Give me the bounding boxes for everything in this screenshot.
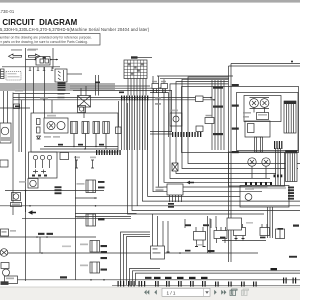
solenoid SV1 bbox=[217, 227, 226, 231]
node label m3 bbox=[19, 181, 26, 183]
arrow to cab harness bbox=[9, 54, 22, 59]
node label bus1 bbox=[232, 84, 239, 86]
wire label aux2 bbox=[95, 82, 100, 84]
wire drop strip2 bbox=[123, 101, 125, 151]
wire main vertical bus A bbox=[25, 48, 27, 281]
switch SW2 bbox=[1, 229, 9, 236]
wire acc trunk b bbox=[13, 99, 214, 101]
wire west run a bbox=[75, 213, 137, 215]
wire ign feed b bbox=[44, 67, 46, 118]
wire main bus P top b bbox=[229, 65, 301, 67]
next page button bbox=[214, 290, 217, 295]
node label d5 bbox=[152, 81, 157, 83]
connector CN-12 pin strip bbox=[172, 132, 201, 137]
wire riser k1c bbox=[95, 75, 97, 96]
wire k1 drop bbox=[83, 107, 85, 118]
inline connector J2 bbox=[14, 104, 20, 109]
wire long run mid bbox=[0, 205, 137, 207]
wire k5 drop bbox=[105, 134, 107, 150]
wire triple drop c bbox=[272, 207, 274, 238]
wire label k12a bbox=[101, 245, 108, 247]
wire riser sw top bbox=[80, 112, 82, 115]
switch SW3 bbox=[60, 153, 69, 160]
junction lr2 bbox=[95, 205, 97, 207]
switch SW4 bbox=[0, 160, 8, 167]
wire label k10w bbox=[98, 219, 105, 221]
wire label aux4 bbox=[162, 84, 167, 86]
junction bbox=[94, 197, 96, 199]
wire fan k9 bbox=[137, 101, 300, 206]
connector CN-20 bbox=[284, 101, 296, 133]
wire fan k4 bbox=[164, 88, 270, 182]
node label u5 bbox=[293, 225, 299, 227]
wire trunk left vertical bbox=[75, 156, 77, 280]
resistor R3 bbox=[276, 229, 285, 239]
connector pin row U2 bbox=[245, 182, 272, 185]
solenoid SV2 bbox=[236, 224, 243, 228]
wire label k9w2 bbox=[98, 187, 105, 189]
wire label k12b bbox=[101, 251, 108, 253]
terminal stub t4 bbox=[51, 67, 53, 71]
wire U-route 6 bbox=[153, 76, 262, 192]
wire bus L2 bbox=[0, 85, 115, 87]
junction bbox=[103, 279, 105, 281]
wire elbow 1 bbox=[121, 232, 151, 285]
wire label c1 bbox=[151, 248, 157, 250]
diode module D5 bbox=[152, 84, 159, 89]
wire riser c1 bbox=[152, 214, 154, 252]
wire alt risers bbox=[4, 91, 8, 123]
wire bus turn down b bbox=[21, 100, 23, 152]
inner module box bbox=[245, 121, 270, 137]
svg-text:LC-5,330H-5,330LCH-5,370-5,370: LC-5,330H-5,330LCH-5,370-5,370HD-5(Machi… bbox=[0, 27, 150, 32]
wire bottom run 3 bbox=[18, 279, 301, 281]
wire label mid2 bbox=[203, 224, 209, 226]
wire drop strip11 bbox=[147, 101, 149, 151]
solenoid relay K11 bbox=[90, 241, 100, 253]
node label GND bbox=[15, 90, 23, 92]
node label riser3 bbox=[213, 133, 223, 135]
wire battery link right bbox=[50, 59, 58, 61]
arrow harness right bbox=[28, 210, 36, 215]
connector pins CN-21 bbox=[274, 141, 282, 149]
relay K4 bbox=[93, 122, 100, 134]
wire drop strip3 bbox=[126, 101, 128, 151]
svg-text:rder parts on the drawing, be: rder parts on the drawing, be sure to co… bbox=[0, 40, 88, 44]
wire riser k1b bbox=[85, 86, 87, 96]
wire label b2 bbox=[47, 233, 54, 235]
wire fuse drop 5 bbox=[139, 79, 141, 96]
connector CN-11 pin strip bbox=[96, 150, 121, 155]
wire panel riser 5 bbox=[223, 80, 225, 150]
wire sw feed bbox=[51, 100, 53, 113]
terminal stub t1 bbox=[29, 67, 31, 71]
junction lr1 bbox=[29, 205, 31, 207]
node label sw bbox=[47, 115, 56, 117]
wire label lrl2 bbox=[55, 189, 62, 191]
wire panel riser 4 bbox=[220, 80, 222, 150]
wire riser f2 bbox=[118, 101, 120, 127]
control box U4 bbox=[5, 276, 18, 284]
node label k10 bbox=[77, 217, 85, 219]
wire label k9w bbox=[98, 181, 105, 183]
lower panel box U2 bbox=[229, 152, 285, 186]
fusible link FL1 bbox=[1, 69, 5, 79]
node label bus2 bbox=[232, 105, 239, 107]
wire bus L3 bbox=[0, 87, 115, 89]
wire fuse label leader bbox=[138, 57, 153, 59]
wire riser c4 bbox=[167, 221, 169, 252]
wire label W3 bbox=[58, 87, 66, 89]
wire cn12 link b bbox=[150, 133, 172, 135]
wire top loop b bbox=[160, 77, 229, 79]
wire fuse drop 3 bbox=[133, 79, 135, 96]
wire drop strip9 bbox=[141, 101, 143, 151]
svg-text:L CIRCUIT DIAGRAM: L CIRCUIT DIAGRAM bbox=[0, 18, 78, 27]
wire box bus 1 bbox=[44, 146, 118, 148]
relay K1 bbox=[78, 96, 91, 108]
wire bus L4 bbox=[0, 89, 115, 91]
page field 1/1 bbox=[162, 288, 210, 296]
node label riser2 bbox=[213, 106, 223, 108]
cluster gauge G2 bbox=[260, 99, 269, 108]
cluster gauge G1 bbox=[250, 99, 259, 108]
diode pack D3 bbox=[33, 170, 38, 174]
wire fuse drop 2 bbox=[130, 79, 132, 96]
alternator A1 bbox=[0, 123, 11, 143]
wire riser k1d bbox=[98, 75, 100, 96]
wire cn12 link a bbox=[150, 131, 172, 133]
wire fuse drop 4 bbox=[136, 79, 138, 96]
resistor R1 bbox=[37, 119, 41, 125]
wire elbow 3 bbox=[127, 237, 151, 285]
comm module U9 bbox=[196, 126, 203, 132]
wire fan k7 bbox=[148, 101, 240, 197]
sender label strip bbox=[252, 187, 286, 190]
wire label k12c bbox=[101, 257, 108, 259]
wire label W5 bbox=[58, 93, 65, 95]
node label battery bbox=[28, 49, 38, 51]
fuse FS2 bbox=[91, 160, 94, 168]
last page button bbox=[221, 290, 226, 295]
junction bbox=[43, 99, 45, 101]
wire fan k10 bbox=[132, 101, 300, 211]
ground terminal block bbox=[1, 281, 9, 285]
junction bat-r bbox=[50, 59, 52, 61]
wire U-route 3 bbox=[176, 82, 276, 174]
wire bus mid 3 bbox=[73, 89, 160, 91]
speaker SP1 bbox=[0, 249, 8, 257]
wire d5 pins bbox=[154, 89, 166, 93]
wire main bus P vertical b bbox=[230, 64, 232, 263]
module M1 bbox=[255, 137, 263, 152]
svg-text:1 / 1: 1 / 1 bbox=[167, 290, 176, 295]
wiper motor box M2 bbox=[29, 152, 58, 178]
monitor panel outer enclosure bbox=[182, 87, 299, 153]
wire riser c3 bbox=[162, 221, 164, 252]
pin cluster C bbox=[215, 282, 257, 287]
junction acc1 bbox=[210, 97, 212, 99]
wire label lrl3 bbox=[55, 192, 62, 194]
wire horn feed bbox=[5, 190, 104, 192]
wire bus L1 bbox=[0, 83, 115, 85]
box U5b bbox=[151, 246, 165, 259]
sensor box S1 bbox=[170, 113, 182, 126]
wire k3 drop bbox=[85, 134, 87, 150]
wire label W6 bbox=[58, 97, 65, 99]
fuse box label bbox=[131, 56, 138, 58]
node label harness-L bbox=[11, 49, 22, 51]
relay K5 bbox=[103, 122, 110, 134]
wire label u6d bbox=[168, 206, 174, 208]
controller module U6 bbox=[167, 184, 183, 195]
terminal stub t2 bbox=[37, 67, 39, 71]
wire battery link left bbox=[26, 59, 37, 61]
junction bbox=[159, 87, 161, 89]
wire label W2 bbox=[58, 85, 66, 87]
wire fuse drop 1 bbox=[127, 79, 129, 96]
wire drop strip1 bbox=[121, 101, 123, 151]
node label bus3 bbox=[232, 128, 239, 130]
wire U-route 4 bbox=[170, 84, 270, 179]
wire corner into CN-12 b bbox=[150, 93, 169, 137]
relay box K0 bbox=[6, 72, 21, 81]
wire drop strip8 bbox=[139, 101, 141, 151]
wire drop strip6 bbox=[134, 101, 136, 151]
node label bundle1 bbox=[155, 97, 161, 99]
lamp LP1 bbox=[3, 269, 10, 276]
junction acc2 bbox=[213, 99, 215, 101]
node label riser bbox=[213, 87, 223, 89]
wire fuse drop 7 bbox=[145, 79, 147, 96]
pin cluster B bbox=[154, 277, 208, 287]
node label gray1 bbox=[62, 246, 71, 248]
wire ign feed a bbox=[33, 67, 35, 113]
wire U-route 1 bbox=[188, 77, 300, 164]
node label gray3 bbox=[246, 222, 253, 224]
starter relay K6 bbox=[78, 106, 86, 113]
pump P1 bbox=[245, 194, 252, 201]
node label bus4 bbox=[232, 151, 239, 153]
svg-text:s number on the drawing are pr: s number on the drawing are provided onl… bbox=[0, 35, 92, 39]
wire drop strip7 bbox=[136, 101, 138, 151]
junction bbox=[153, 85, 155, 87]
wire mid drop pair bbox=[208, 216, 211, 253]
terminal stub t3 bbox=[43, 67, 45, 71]
gauge G4 bbox=[262, 158, 270, 166]
junction bat-l bbox=[34, 59, 36, 61]
gauge frame bbox=[250, 98, 270, 109]
wire g4 drop bbox=[265, 166, 267, 178]
resistor R2 bbox=[37, 127, 41, 133]
wire elbow 2 bbox=[124, 234, 151, 285]
wire ps riser bbox=[184, 219, 186, 228]
junction bbox=[36, 236, 38, 238]
node label k9 bbox=[77, 183, 85, 185]
lighter L1 bbox=[1, 263, 9, 269]
pressure switch PS1 bbox=[196, 227, 203, 232]
wire cn-a east bbox=[67, 73, 82, 75]
wire label stack right bbox=[288, 187, 294, 200]
fuse FS1 bbox=[75, 160, 78, 168]
first page button bbox=[144, 290, 149, 295]
comm module U7 bbox=[196, 96, 204, 102]
ignition switch box SW1 bbox=[31, 113, 118, 152]
wire west run b bbox=[75, 216, 131, 218]
clipboard icon (disabled) bbox=[242, 289, 249, 296]
node label k11 bbox=[80, 244, 88, 246]
washer motor M3 bbox=[28, 179, 38, 189]
wire g3 drop bbox=[251, 166, 253, 178]
note box bbox=[0, 34, 100, 46]
wire label aux1 bbox=[15, 106, 20, 108]
wire label ign3 bbox=[99, 144, 104, 146]
diode module D4 bbox=[172, 163, 178, 171]
wire label right-edge bbox=[289, 256, 297, 258]
wire feed k9 bbox=[75, 197, 97, 199]
prev page button bbox=[154, 290, 157, 295]
relay K8 bbox=[248, 124, 255, 133]
node label sw2 bbox=[10, 230, 16, 232]
relay K10 bbox=[86, 214, 96, 226]
wiper pins bbox=[32, 175, 35, 177]
key switch contacts bbox=[44, 118, 68, 133]
wire triple drop a bbox=[267, 207, 269, 238]
node label k12 bbox=[80, 265, 88, 267]
junction bbox=[90, 279, 92, 281]
node label s1 bbox=[170, 110, 178, 112]
wire label b1 bbox=[38, 233, 45, 235]
wire label W1 bbox=[58, 82, 66, 84]
pin cluster D bbox=[271, 268, 297, 284]
wire label run3b bbox=[145, 277, 152, 279]
wire triple drop b bbox=[269, 207, 271, 238]
wire label aux3 bbox=[119, 92, 124, 94]
arrow to engine harness bbox=[29, 54, 41, 59]
wire main bus P top a bbox=[231, 63, 300, 65]
wire bottom right run bbox=[222, 240, 266, 242]
wire label sv3w bbox=[260, 237, 266, 239]
wire U-route 5 bbox=[159, 76, 268, 187]
wire left riser bbox=[12, 93, 14, 216]
box U5 bbox=[227, 218, 242, 230]
battery B1 bbox=[36, 57, 50, 66]
fuse F2 bbox=[116, 127, 122, 134]
wire drop strip4 bbox=[128, 101, 130, 151]
wire ground run bbox=[13, 93, 70, 95]
node label gray2 bbox=[196, 244, 203, 246]
wire right riser group bbox=[275, 148, 277, 186]
monitor panel U1 bbox=[237, 93, 299, 151]
node label fs2 bbox=[90, 157, 96, 159]
wire main bus P vertical a bbox=[228, 66, 230, 262]
connector pin marks right bbox=[274, 175, 283, 178]
connector feet bbox=[151, 251, 170, 253]
fuse box F1 grid bbox=[124, 60, 147, 79]
wire label ign2 bbox=[78, 144, 83, 146]
wire fan k11 bbox=[128, 103, 265, 214]
wire cn-a riser bbox=[52, 48, 54, 69]
wire top loop a bbox=[157, 75, 233, 77]
node label u6a bbox=[156, 187, 164, 189]
wire label run2 bbox=[208, 250, 215, 252]
horn H1 bbox=[12, 193, 21, 201]
node label ACC bbox=[40, 97, 48, 99]
wire box bus 2 bbox=[40, 148, 118, 150]
wire label lrl bbox=[55, 186, 62, 188]
wire fan k8 bbox=[142, 101, 300, 202]
sensor group feet bbox=[235, 238, 245, 240]
junction bbox=[84, 148, 85, 149]
wire elbow 4 bbox=[130, 269, 161, 286]
junction top bbox=[291, 61, 293, 63]
node label panel1 bbox=[243, 112, 251, 114]
wire bottom run 2 bbox=[8, 252, 258, 254]
wire elbow 6 bbox=[136, 273, 301, 285]
relay K3 bbox=[82, 122, 89, 134]
wire battery feed bbox=[2, 66, 60, 68]
wire riser c2 bbox=[157, 216, 159, 252]
wire label c2 bbox=[158, 248, 164, 250]
wire label r3w bbox=[278, 228, 284, 230]
wire acc trunk a bbox=[13, 97, 211, 99]
wire bottom run 1 bbox=[0, 236, 96, 238]
wire riser k1a bbox=[80, 88, 82, 95]
wire elbow 5 bbox=[133, 271, 301, 285]
wire label mid1 bbox=[185, 224, 191, 226]
junction bbox=[179, 252, 181, 254]
wire drop sw2 bbox=[39, 237, 41, 253]
wire gauge links bbox=[254, 107, 265, 112]
connector CN-A bbox=[55, 69, 67, 82]
wire k2 drop bbox=[73, 134, 75, 147]
acc relay K7 bbox=[257, 113, 269, 120]
wire long run low bbox=[22, 217, 131, 219]
junction bat-r2 bbox=[56, 59, 58, 61]
node label u6b bbox=[156, 189, 164, 191]
lamp label bbox=[44, 136, 51, 138]
relay K2 bbox=[71, 122, 78, 134]
svg-text:3173E-01: 3173E-01 bbox=[0, 9, 15, 14]
wire panel riser 3 bbox=[217, 80, 219, 150]
wire k4 drop bbox=[95, 134, 97, 147]
node label panel2 bbox=[243, 116, 249, 118]
wire label u6c bbox=[168, 203, 174, 205]
connector CN-10 pin strip bbox=[121, 96, 148, 101]
horn label bbox=[11, 203, 22, 207]
relay K9 bbox=[86, 180, 96, 193]
node label bundle2 bbox=[155, 103, 161, 105]
node label fs1 bbox=[74, 157, 80, 159]
wire label ps1w bbox=[185, 250, 191, 252]
wire corner into CN-12 a bbox=[150, 90, 172, 132]
wire drop strip5 bbox=[131, 101, 133, 151]
wire label sv2w bbox=[220, 237, 226, 239]
wire horn drop bbox=[25, 191, 27, 213]
wire label k12d bbox=[101, 269, 108, 271]
gauge G3 bbox=[248, 158, 256, 166]
wire sv risers bbox=[210, 219, 212, 228]
node label harness-R bbox=[27, 49, 36, 51]
snapshot icon bbox=[230, 289, 237, 296]
connector CN-22 bbox=[286, 151, 298, 182]
arrow link bbox=[187, 181, 195, 185]
wire fuse drop 6 bbox=[142, 79, 144, 96]
junction bbox=[25, 190, 27, 192]
wire drop strip10 bbox=[144, 101, 146, 151]
wire panel riser 1 bbox=[211, 80, 213, 150]
wire bus mid 2 bbox=[70, 87, 155, 89]
